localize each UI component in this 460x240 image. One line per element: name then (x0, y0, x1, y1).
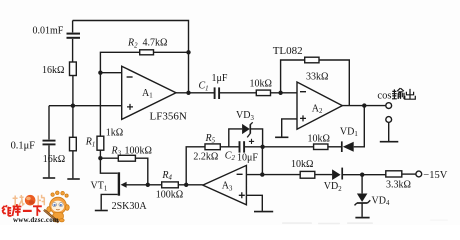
svg-text:−15V: −15V (423, 170, 447, 181)
svg-text:2.2kΩ: 2.2kΩ (193, 151, 218, 162)
svg-text:10μF: 10μF (237, 153, 258, 164)
svg-text:10kΩ: 10kΩ (308, 133, 330, 144)
svg-text:100kΩ: 100kΩ (156, 190, 183, 201)
svg-text:cos: cos (377, 91, 391, 102)
svg-text:TL082: TL082 (273, 45, 303, 57)
svg-text:16kΩ: 16kΩ (43, 154, 65, 165)
svg-text:100kΩ: 100kΩ (125, 146, 152, 157)
svg-text:10kΩ: 10kΩ (291, 159, 313, 170)
svg-text:1μF: 1μF (212, 73, 228, 84)
svg-text:33kΩ: 33kΩ (306, 72, 328, 83)
svg-text:LF356N: LF356N (150, 111, 187, 123)
svg-text:4.7kΩ: 4.7kΩ (143, 37, 168, 48)
svg-text:10kΩ: 10kΩ (250, 79, 272, 90)
svg-text:www.dzsc.com: www.dzsc.com (13, 216, 59, 224)
svg-text:2SK30A: 2SK30A (112, 201, 148, 212)
svg-text:0.1μF: 0.1μF (11, 141, 36, 152)
svg-text:1kΩ: 1kΩ (106, 127, 123, 138)
svg-text:0.01mF: 0.01mF (33, 26, 64, 37)
svg-text:16kΩ: 16kΩ (42, 65, 64, 76)
svg-text:3.3kΩ: 3.3kΩ (386, 180, 411, 191)
